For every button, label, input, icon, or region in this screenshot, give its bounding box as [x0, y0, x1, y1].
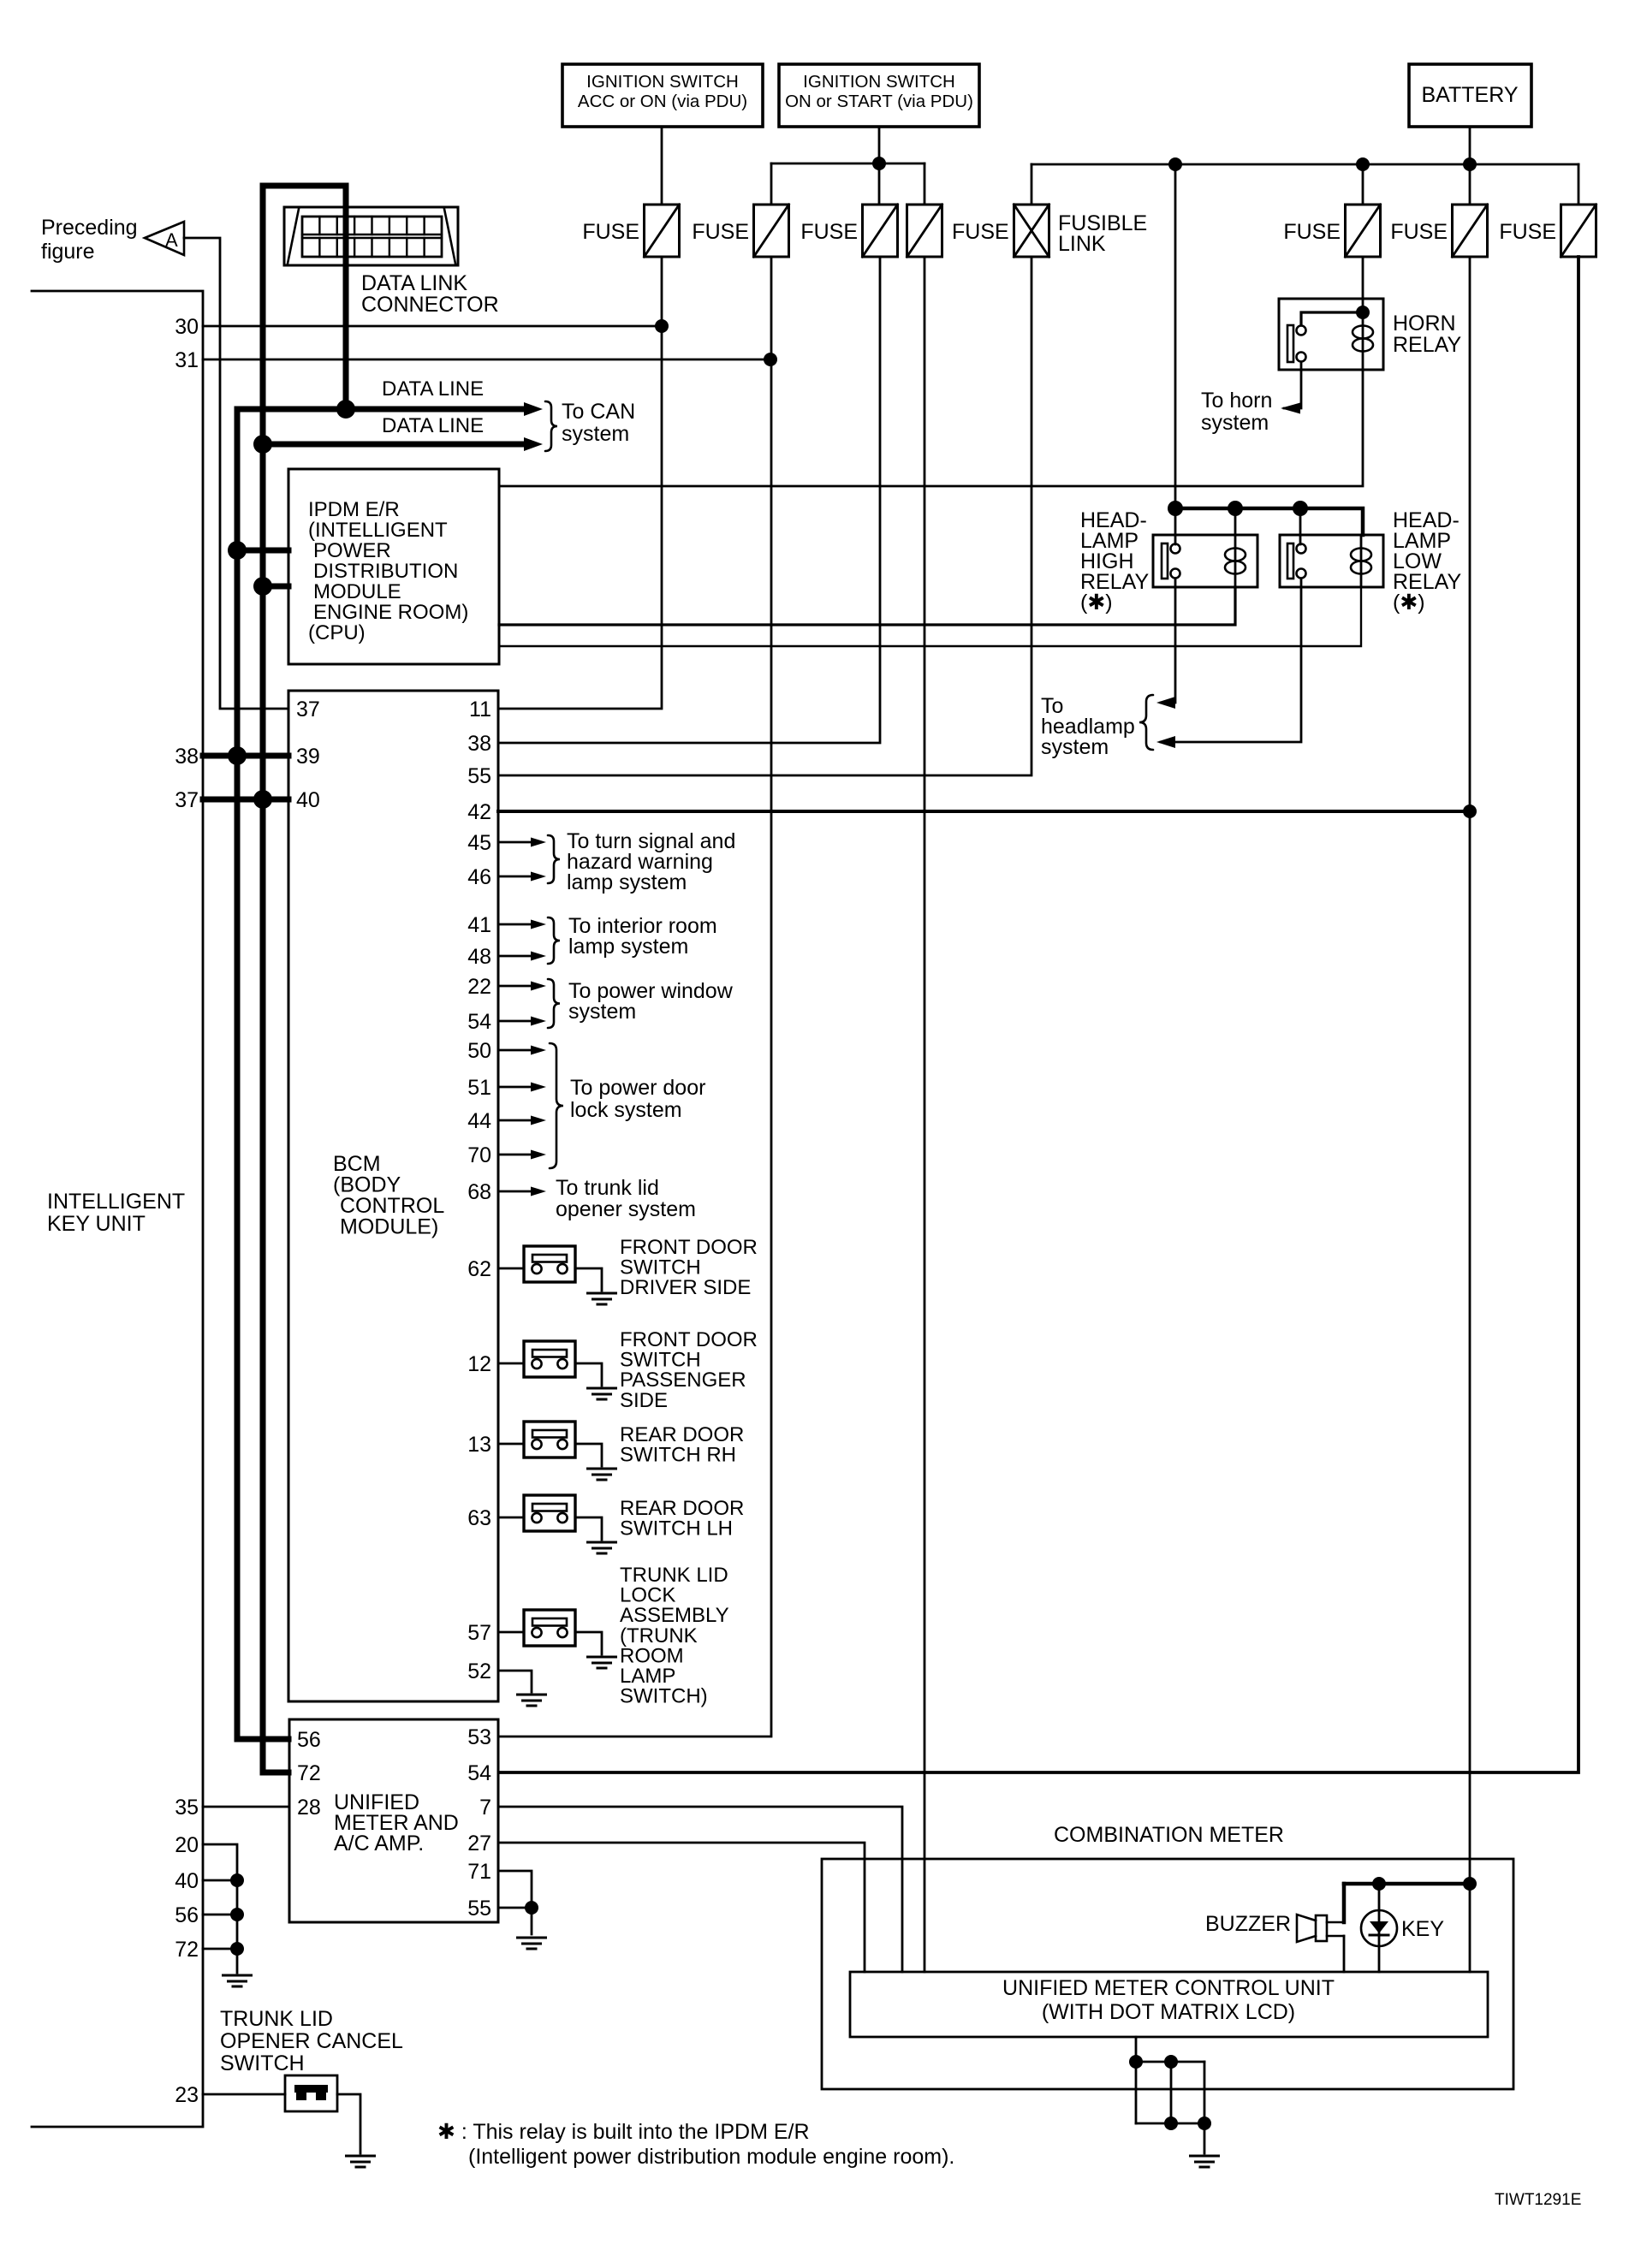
svg-text:DRIVER SIDE: DRIVER SIDE — [620, 1276, 751, 1299]
svg-text:FUSE: FUSE — [692, 220, 749, 244]
node: dot row37 / line B — [253, 790, 272, 809]
wire: branch bus for fuses F2,F4 — [771, 163, 924, 165]
svg-text:MODULE): MODULE) — [340, 1215, 438, 1239]
ground: meter 71/55 — [518, 1937, 546, 1939]
fuse F6 (horn) — [1346, 205, 1381, 257]
component: data link connector — [284, 207, 458, 265]
node: dot B/IPDM stub — [253, 577, 272, 596]
wire: IPDM to headlamp low relay coil — [499, 587, 1361, 646]
svg-text:72: 72 — [297, 1761, 321, 1785]
svg-text:53: 53 — [467, 1725, 491, 1749]
wire: fuse F8 to meter pin 54 row — [499, 257, 1578, 1772]
svg-text:lamp system: lamp system — [568, 935, 688, 959]
svg-text:DATA LINK: DATA LINK — [361, 271, 467, 295]
svg-text:38: 38 — [467, 732, 491, 756]
svg-text:70: 70 — [467, 1143, 491, 1167]
fuse F4 — [907, 205, 942, 257]
wire: key unit pin 72 to chain — [203, 1948, 237, 1950]
svg-text:(✱): (✱) — [1080, 591, 1113, 614]
wire: meter pin 7 to control unit — [498, 1807, 902, 1972]
ground: pin 62 switch ground — [588, 1292, 616, 1295]
fuse F8 — [1561, 205, 1596, 257]
ground: pin 63 switch ground — [588, 1541, 616, 1544]
wire: fuse F4 to meter control unit — [924, 257, 926, 1972]
svg-text:KEY: KEY — [1401, 1917, 1444, 1941]
wire: DLC loop (thick) to CAN line B — [263, 186, 346, 207]
svg-text:11: 11 — [469, 698, 491, 721]
wire: thick stub B to IPDM — [263, 584, 288, 590]
svg-text:56: 56 — [175, 1903, 199, 1927]
svg-text:27: 27 — [467, 1832, 491, 1855]
svg-text:DISTRIBUTION: DISTRIBUTION — [313, 560, 458, 583]
wire: fuse F6 to horn relay — [1362, 257, 1364, 299]
wire: CAN vertical B (thick) — [263, 186, 288, 1772]
node: mesh dot c — [1164, 2117, 1178, 2130]
component: IGNITION SWITCH ACC box — [562, 64, 763, 127]
label: To CAN system — [545, 401, 557, 451]
wire: ACC switch to fuse F1 — [661, 127, 663, 205]
svg-text:22: 22 — [467, 975, 491, 999]
wire: key unit pin 56 to chain — [203, 1914, 237, 1916]
ground: pin 13 switch ground — [588, 1468, 616, 1470]
wire: headlamp relay feed bus (thick) — [1175, 508, 1363, 535]
wire: buzzer to control unit — [1343, 1936, 1346, 1972]
wire: low relay output arrow — [1161, 579, 1301, 742]
svg-text:ON or START (via PDU): ON or START (via PDU) — [785, 92, 973, 111]
svg-text:38: 38 — [175, 745, 199, 769]
svg-text:lamp system: lamp system — [567, 870, 687, 894]
wire: from connector A to BCM pin 37 (left) — [184, 238, 288, 709]
svg-text:To power door: To power door — [570, 1076, 705, 1100]
wire: buzzer/key feed (thick) — [1344, 1882, 1470, 1886]
ground: cancel switch ground — [347, 2155, 375, 2158]
svg-text:68: 68 — [467, 1180, 491, 1204]
svg-text:42: 42 — [467, 800, 491, 824]
fuse F1 (ACC) — [645, 205, 680, 257]
svg-text:35: 35 — [175, 1796, 199, 1820]
svg-text:UNIFIED METER CONTROL UNIT: UNIFIED METER CONTROL UNIT — [1002, 1976, 1335, 2000]
svg-text:system: system — [568, 1000, 636, 1024]
node: junction dot bus / headlamp feed — [1168, 157, 1182, 171]
node: dot F7 / BCM pin 42 row — [1463, 804, 1477, 818]
svg-text:7: 7 — [479, 1796, 491, 1820]
svg-text:DATA LINE: DATA LINE — [382, 414, 484, 437]
wire: fuse F3 to BCM pin 38 — [499, 257, 880, 743]
svg-text:(✱): (✱) — [1393, 591, 1425, 614]
wire: battery feed to headlamp relays (long) — [1174, 164, 1177, 508]
wire: key unit pin 37 (thick) to BCM pin 40 — [203, 797, 288, 803]
svg-text:A/C AMP.: A/C AMP. — [334, 1832, 424, 1855]
svg-text:SWITCH: SWITCH — [220, 2051, 305, 2075]
node: junction dot bus / battery — [1463, 157, 1477, 171]
wire: cancel switch to ground — [337, 2094, 360, 2153]
wire: CAN data line 2 (thick) — [263, 442, 526, 448]
svg-text:57: 57 — [467, 1621, 491, 1645]
wire: CAN vertical A (thick) — [237, 409, 288, 1739]
svg-text:48: 48 — [467, 945, 491, 969]
svg-text:37: 37 — [175, 788, 199, 812]
svg-text:INTELLIGENT: INTELLIGENT — [47, 1190, 185, 1214]
wire: F7 feed to control unit — [1469, 1884, 1471, 1972]
svg-text:SWITCH RH: SWITCH RH — [620, 1444, 736, 1467]
svg-text:63: 63 — [467, 1506, 491, 1530]
svg-text:20: 20 — [175, 1833, 199, 1857]
svg-text:50: 50 — [467, 1039, 491, 1063]
switch: trunk lid opener cancel switch — [285, 2075, 337, 2111]
wire: meter pin 71 ground — [498, 1871, 532, 1934]
svg-text:FUSE: FUSE — [1283, 220, 1341, 244]
component: COMBINATION METER box — [822, 1859, 1513, 2089]
node: dot feed/high coil — [1228, 501, 1243, 516]
svg-text:(WITH DOT MATRIX LCD): (WITH DOT MATRIX LCD) — [1042, 2000, 1295, 2024]
node: dot key LED feed — [1372, 1877, 1386, 1891]
wire: key unit pin 38 (thick) to BCM pin 39 — [203, 753, 288, 759]
svg-text:72: 72 — [175, 1938, 199, 1962]
svg-text:54: 54 — [467, 1761, 491, 1785]
svg-text:40: 40 — [175, 1869, 199, 1893]
svg-text:FUSE: FUSE — [952, 220, 1009, 244]
wire: key unit pin 31 to fuse F2 line — [203, 359, 770, 361]
fuse F7 — [1453, 205, 1488, 257]
svg-text:opener system: opener system — [556, 1197, 696, 1221]
svg-text:HORN: HORN — [1393, 312, 1456, 335]
node: dot feed/high contact — [1168, 501, 1183, 516]
wire: horn relay switch output to horn system — [1284, 362, 1301, 408]
svg-text:44: 44 — [467, 1109, 491, 1133]
node: dot horn relay coil top — [1356, 306, 1370, 319]
svg-text:figure: figure — [41, 240, 95, 264]
svg-text:To trunk lid: To trunk lid — [556, 1176, 659, 1200]
svg-text:To horn: To horn — [1201, 389, 1272, 413]
ground: pin 12 switch ground — [588, 1387, 616, 1390]
svg-text:55: 55 — [467, 764, 491, 788]
wire: DLC down through connector to data line 1 — [343, 207, 349, 409]
svg-text:POWER: POWER — [313, 539, 391, 562]
label: To headlamp system — [1139, 695, 1153, 750]
wire: thick stub A to IPDM — [237, 548, 288, 554]
svg-text:39: 39 — [296, 745, 320, 769]
node: junction line B / data line 2 — [253, 435, 272, 454]
svg-text:71: 71 — [467, 1860, 491, 1884]
wire: IPDM to headlamp high relay coil — [499, 587, 1235, 625]
svg-text:DATA LINE: DATA LINE — [382, 377, 484, 401]
node: mesh dot b — [1164, 2055, 1178, 2069]
svg-text:30: 30 — [175, 315, 199, 339]
svg-text:62: 62 — [467, 1257, 491, 1281]
svg-text:56: 56 — [297, 1728, 321, 1752]
label: To turn signal and hazard warning lamp system — [548, 835, 560, 883]
ground: combination meter ground — [1191, 2155, 1219, 2158]
svg-text:COMBINATION METER: COMBINATION METER — [1054, 1823, 1284, 1847]
node: mesh dot a — [1129, 2055, 1143, 2069]
svg-text:45: 45 — [467, 831, 491, 855]
svg-text:MODULE: MODULE — [313, 580, 401, 603]
svg-text:✱ : This relay is built into t: ✱ : This relay is built into the IPDM E/… — [437, 2120, 810, 2144]
svg-text:OPENER CANCEL: OPENER CANCEL — [220, 2029, 403, 2053]
wire: ON/START switch down to branch node — [878, 127, 881, 205]
fusible link FL — [1014, 205, 1049, 257]
component: BCM box — [288, 691, 498, 1701]
node: dot row38 / line A — [228, 746, 247, 765]
svg-text:54: 54 — [467, 1010, 491, 1034]
node: dot A/IPDM stub — [228, 541, 247, 560]
wire: feed to low relay contact — [1299, 508, 1302, 544]
label: To interior room lamp system — [548, 917, 560, 964]
svg-text:55: 55 — [467, 1897, 491, 1921]
node: dot pin30/F1 — [655, 319, 669, 333]
relay: HEADLAMP HIGH RELAY — [1153, 535, 1257, 587]
svg-text:40: 40 — [296, 788, 320, 812]
node: mesh dot d — [1198, 2117, 1211, 2130]
node: dot pin31/F2 — [764, 353, 777, 366]
wire: meter pin 55 ground — [498, 1907, 532, 1909]
svg-text:23: 23 — [175, 2083, 199, 2107]
svg-text:IGNITION SWITCH: IGNITION SWITCH — [586, 72, 739, 92]
svg-text:SWITCH LH: SWITCH LH — [620, 1517, 733, 1541]
wire: key unit pin 20 ground chain — [203, 1844, 237, 1973]
svg-text:Preceding: Preceding — [41, 216, 138, 240]
svg-text:52: 52 — [467, 1659, 491, 1683]
svg-text:lock system: lock system — [570, 1098, 682, 1122]
node: preceding figure connector A (triangle) — [145, 222, 184, 255]
svg-text:ENGINE ROOM): ENGINE ROOM) — [313, 601, 468, 624]
wire: feed to high relay coil — [1234, 508, 1237, 535]
svg-text:FUSE: FUSE — [1390, 220, 1448, 244]
svg-text:IGNITION SWITCH: IGNITION SWITCH — [803, 72, 955, 92]
wire: control unit ground mesh — [1135, 2037, 1138, 2123]
svg-text:ACC or ON (via PDU): ACC or ON (via PDU) — [578, 92, 747, 111]
svg-text:28: 28 — [297, 1796, 321, 1820]
node: dot 71/55 ground join — [525, 1901, 538, 1915]
ground: BCM pin 52 — [518, 1694, 546, 1696]
svg-text:system: system — [1201, 411, 1269, 435]
component: UNIFIED METER AND A/C AMP box — [289, 1719, 498, 1922]
wire: feed down to buzzer — [1342, 1884, 1347, 1922]
wire: CAN data line 1 (thick) — [237, 407, 526, 413]
wire: fuse F2 to meter pin 53 — [499, 257, 771, 1737]
node: intelligent key unit boundary — [32, 291, 203, 2127]
svg-text:RELAY: RELAY — [1393, 333, 1461, 357]
svg-text:LINK: LINK — [1058, 232, 1106, 256]
node: junction dot ON/START branch — [872, 157, 886, 170]
wire: key unit pin 40 to chain — [203, 1879, 237, 1882]
node: dot feed/low contact — [1293, 501, 1308, 516]
component: buzzer — [1316, 1915, 1327, 1941]
wire: key unit pin 23 to cancel switch — [203, 2093, 285, 2096]
svg-text:46: 46 — [467, 865, 491, 889]
wire: fusible link to BCM pin 55 — [499, 257, 1032, 775]
svg-text:system: system — [1041, 735, 1109, 759]
svg-text:41: 41 — [467, 913, 491, 937]
svg-text:51: 51 — [467, 1076, 491, 1100]
svg-text:SWITCH): SWITCH) — [620, 1685, 708, 1708]
component: IGNITION SWITCH ON/START box — [779, 64, 979, 127]
label: To power window system — [548, 979, 560, 1028]
svg-text:12: 12 — [467, 1352, 491, 1376]
svg-text:TIWT1291E: TIWT1291E — [1495, 2191, 1581, 2209]
wire: meter pin 27 to control unit — [498, 1843, 865, 1972]
component: BATTERY box — [1409, 64, 1531, 127]
node: junction DLC / data line 1 — [336, 400, 355, 419]
svg-text:A: A — [165, 229, 178, 251]
svg-text:FUSE: FUSE — [800, 220, 858, 244]
svg-text:FUSE: FUSE — [582, 220, 639, 244]
svg-text:KEY UNIT: KEY UNIT — [47, 1212, 146, 1236]
fuse F3 — [863, 205, 898, 257]
wire: fuse F1 to BCM pin 11 — [499, 257, 662, 709]
wire: high relay output arrow — [1161, 579, 1175, 703]
wire: key unit pin 30 to fuse F1 line — [203, 325, 662, 328]
wire: fuse F7 down to combination meter — [1469, 257, 1471, 1884]
component: KEY warning lamp (LED) — [1378, 1884, 1381, 1972]
svg-text:(INTELLIGENT: (INTELLIGENT — [308, 519, 448, 542]
wire: battery feed bus — [1032, 163, 1578, 166]
relay: HEADLAMP LOW RELAY — [1280, 535, 1383, 587]
node: junction dot bus / fuse F6 — [1356, 157, 1370, 171]
svg-text:IPDM E/R: IPDM E/R — [308, 498, 400, 521]
svg-text:FUSE: FUSE — [1499, 220, 1556, 244]
svg-text:37: 37 — [296, 698, 320, 721]
wire: IPDM to horn relay coil — [499, 370, 1363, 486]
svg-text:TRUNK LID: TRUNK LID — [220, 2007, 333, 2031]
label: To power door lock system — [550, 1043, 563, 1168]
ground: key unit ground — [223, 1974, 252, 1977]
relay: HORN RELAY — [1279, 299, 1383, 370]
svg-text:CONNECTOR: CONNECTOR — [361, 293, 499, 317]
node: dot F7 feed — [1463, 1877, 1477, 1891]
ground: pin 57 switch ground — [588, 1656, 616, 1659]
svg-text:BATTERY: BATTERY — [1422, 83, 1519, 107]
wire: feed to high relay contact — [1174, 508, 1177, 544]
svg-text:BUZZER: BUZZER — [1205, 1912, 1291, 1936]
wire: key unit pin 35 to meter pin 28 — [203, 1806, 289, 1808]
svg-text:system: system — [562, 422, 629, 446]
svg-text:(Intelligent power distributio: (Intelligent power distribution module e… — [468, 2145, 954, 2169]
component: IPDM E/R box — [288, 469, 499, 664]
component: UNIFIED METER CONTROL UNIT box — [850, 1972, 1488, 2037]
svg-text:(CPU): (CPU) — [308, 621, 366, 644]
wire: horn relay internal feed — [1301, 312, 1363, 325]
svg-text:To CAN: To CAN — [562, 400, 635, 424]
wire: BCM pin 42 row to fuse F7 — [498, 810, 1470, 813]
svg-text:31: 31 — [175, 348, 199, 372]
fuse F2 — [754, 205, 789, 257]
svg-text:13: 13 — [467, 1433, 491, 1457]
svg-text:SIDE: SIDE — [620, 1389, 668, 1412]
